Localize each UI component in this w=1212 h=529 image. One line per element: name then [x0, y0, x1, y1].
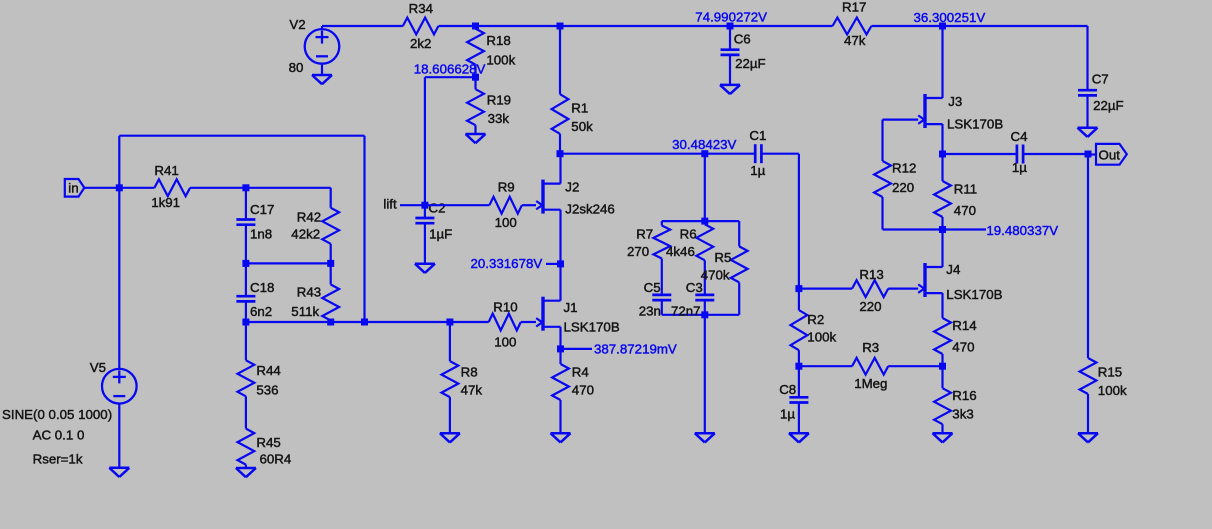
svg-text:36.300251V: 36.300251V — [914, 10, 986, 25]
svg-text:387.87219mV: 387.87219mV — [594, 341, 677, 356]
svg-text:R5: R5 — [714, 250, 731, 265]
svg-text:Rser=1k: Rser=1k — [33, 451, 83, 466]
svg-text:R34: R34 — [409, 1, 433, 16]
svg-text:33k: 33k — [488, 111, 510, 126]
svg-text:R18: R18 — [486, 33, 510, 48]
svg-text:C8: C8 — [779, 382, 796, 397]
svg-text:220: 220 — [859, 299, 881, 314]
svg-text:1n8: 1n8 — [250, 227, 272, 242]
svg-text:80: 80 — [289, 60, 304, 75]
svg-text:42k2: 42k2 — [291, 227, 320, 242]
svg-text:6n2: 6n2 — [250, 304, 272, 319]
svg-text:72n7: 72n7 — [671, 303, 701, 318]
svg-text:LSK170B: LSK170B — [946, 287, 1002, 302]
svg-text:R16: R16 — [952, 388, 976, 403]
svg-text:in: in — [68, 180, 78, 195]
svg-text:23n: 23n — [639, 303, 661, 318]
svg-text:74.990272V: 74.990272V — [695, 10, 767, 25]
svg-text:60R4: 60R4 — [260, 452, 292, 467]
svg-text:R44: R44 — [256, 363, 280, 378]
svg-text:470k: 470k — [701, 267, 730, 282]
svg-text:R15: R15 — [1098, 365, 1122, 380]
svg-text:C4: C4 — [1011, 129, 1028, 144]
svg-text:18.606628V: 18.606628V — [414, 62, 486, 77]
svg-text:1µ: 1µ — [750, 163, 765, 178]
svg-text:270: 270 — [627, 244, 649, 259]
svg-text:R13: R13 — [859, 267, 883, 282]
svg-text:LSK170B: LSK170B — [564, 320, 620, 335]
svg-text:R9: R9 — [498, 180, 515, 195]
svg-text:R12: R12 — [892, 160, 916, 175]
svg-text:C5: C5 — [644, 280, 661, 295]
svg-text:R42: R42 — [297, 210, 321, 225]
svg-text:V2: V2 — [289, 17, 305, 32]
svg-text:C2: C2 — [429, 201, 446, 216]
svg-text:1µ: 1µ — [1012, 160, 1027, 175]
svg-text:100k: 100k — [807, 329, 836, 344]
svg-text:J2sk246: J2sk246 — [565, 202, 615, 217]
svg-text:22µF: 22µF — [1093, 98, 1124, 113]
svg-text:22µF: 22µF — [735, 56, 766, 71]
svg-text:511k: 511k — [291, 304, 319, 319]
svg-text:R10: R10 — [493, 300, 517, 315]
svg-text:C18: C18 — [250, 280, 274, 295]
svg-text:C3: C3 — [686, 280, 703, 295]
svg-text:Out: Out — [1099, 148, 1121, 163]
svg-text:R43: R43 — [297, 284, 321, 299]
svg-text:536: 536 — [256, 382, 278, 397]
svg-text:lift: lift — [383, 197, 397, 212]
svg-text:1µF: 1µF — [429, 226, 452, 241]
svg-text:470: 470 — [954, 203, 976, 218]
svg-text:R4: R4 — [572, 364, 589, 379]
svg-text:C17: C17 — [250, 202, 274, 217]
svg-text:1k91: 1k91 — [151, 195, 180, 210]
svg-text:4k46: 4k46 — [666, 244, 695, 259]
svg-text:R19: R19 — [487, 93, 511, 108]
svg-text:50k: 50k — [571, 119, 593, 134]
svg-text:100k: 100k — [1098, 383, 1127, 398]
svg-text:R45: R45 — [256, 435, 280, 450]
svg-text:30.48423V: 30.48423V — [672, 137, 736, 152]
svg-text:100: 100 — [494, 334, 516, 349]
svg-text:C7: C7 — [1092, 72, 1109, 87]
svg-text:100k: 100k — [486, 53, 515, 68]
svg-text:470: 470 — [952, 339, 974, 354]
svg-text:V5: V5 — [90, 360, 106, 375]
svg-text:R41: R41 — [154, 163, 178, 178]
svg-text:R8: R8 — [461, 364, 478, 379]
svg-text:C1: C1 — [749, 128, 766, 143]
svg-text:2k2: 2k2 — [410, 36, 431, 51]
svg-text:AC 0.1 0: AC 0.1 0 — [33, 427, 85, 442]
svg-text:SINE(0 0.05 1000): SINE(0 0.05 1000) — [2, 407, 112, 422]
svg-text:3k3: 3k3 — [952, 406, 973, 421]
svg-text:1µ: 1µ — [780, 406, 795, 421]
svg-text:R11: R11 — [954, 182, 977, 197]
svg-text:J1: J1 — [564, 300, 578, 315]
svg-text:J2: J2 — [565, 180, 579, 195]
svg-text:470: 470 — [572, 383, 594, 398]
svg-text:R6: R6 — [680, 227, 697, 242]
svg-text:47k: 47k — [461, 383, 483, 398]
svg-text:220: 220 — [892, 180, 914, 195]
svg-text:R7: R7 — [636, 227, 653, 242]
svg-text:19.480337V: 19.480337V — [986, 223, 1058, 238]
svg-text:47k: 47k — [844, 33, 866, 48]
svg-text:R2: R2 — [807, 312, 824, 327]
svg-text:1Meg: 1Meg — [854, 376, 887, 391]
svg-text:R3: R3 — [862, 340, 879, 355]
svg-text:R17: R17 — [842, 0, 866, 15]
svg-text:J4: J4 — [946, 262, 960, 277]
svg-text:100: 100 — [495, 215, 517, 230]
svg-text:20.331678V: 20.331678V — [471, 256, 543, 271]
svg-text:R14: R14 — [952, 318, 976, 333]
svg-text:C6: C6 — [734, 31, 751, 46]
svg-text:LSK170B: LSK170B — [947, 116, 1003, 131]
svg-text:J3: J3 — [948, 94, 962, 109]
svg-text:R1: R1 — [571, 101, 588, 116]
